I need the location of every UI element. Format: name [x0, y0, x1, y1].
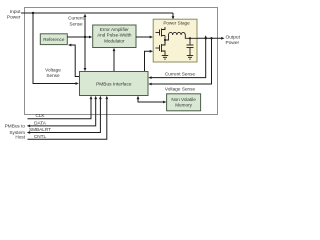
transistor Q2 (low-side MOSFET) — [156, 40, 166, 56]
svg-text:Non Volatile: Non Volatile — [171, 97, 196, 102]
svg-text:SMBALRT: SMBALRT — [29, 127, 51, 132]
svg-text:Sense: Sense — [46, 73, 60, 78]
svg-text:Error Amplifier: Error Amplifier — [100, 27, 130, 32]
svg-text:Voltage Sense: Voltage Sense — [165, 87, 196, 92]
svg-text:CNTL: CNTL — [34, 134, 47, 139]
wire SMBALRT — [29, 98, 100, 133]
svg-text:Power: Power — [226, 40, 240, 46]
wire error amp to power stage gate drive 1 — [136, 36, 151, 38]
svg-text:Modulator: Modulator — [104, 38, 125, 43]
op-amp block error amplifier / PWM U1 — [93, 25, 136, 48]
ground (under capacitor C1) — [187, 56, 193, 60]
wire input current sense vertical — [84, 16, 86, 70]
svg-text:Host: Host — [15, 135, 25, 140]
svg-text:Reference: Reference — [43, 37, 65, 42]
wire pmbus to nvm — [138, 98, 164, 103]
wire pmbus to error amplifier — [113, 50, 115, 72]
wire output voltage sense — [151, 38, 212, 84]
PMBus interface block — [80, 72, 149, 96]
wire input power rail — [21, 12, 173, 14]
svg-text:And Pulse-Width: And Pulse-Width — [97, 33, 132, 38]
ground (under FET chain) — [162, 56, 168, 60]
svg-text:Voltage: Voltage — [45, 67, 61, 72]
wire output power rail — [197, 37, 222, 39]
svg-text:Power Stage: Power Stage — [163, 21, 190, 26]
wire reference to error amplifier — [67, 36, 89, 38]
svg-text:CLK: CLK — [35, 113, 45, 118]
wire switch node — [164, 36, 166, 46]
wire CLK — [28, 98, 92, 119]
wire output current sense — [151, 38, 206, 77]
svg-text:Memory: Memory — [175, 103, 192, 108]
svg-text:Power: Power — [7, 14, 21, 20]
wire pmbus to power stage gate drive 2 — [145, 51, 151, 71]
svg-text:Current Sense: Current Sense — [165, 71, 196, 76]
wire CNTL — [28, 98, 107, 139]
power stage block — [153, 19, 197, 62]
capacitor C1 — [187, 38, 194, 55]
non volatile memory block — [167, 94, 201, 111]
svg-text:PMBus Interface: PMBus Interface — [96, 82, 132, 88]
wire pmbus to reference — [71, 45, 80, 77]
reference block — [40, 34, 67, 45]
node output voltage sense tap — [210, 37, 212, 39]
transistor Q1 (high-side MOSFET) — [156, 27, 166, 37]
wire input voltage sense (down-left) — [33, 13, 76, 84]
node current sense / reference junction — [84, 36, 86, 38]
svg-text:PMBus to: PMBus to — [5, 124, 26, 129]
node output current sense tap — [205, 37, 207, 39]
wire DATA — [29, 98, 96, 126]
svg-text:DATA: DATA — [34, 120, 47, 125]
device outline (controller IC boundary) — [25, 8, 218, 115]
svg-text:Output: Output — [226, 34, 241, 40]
inductor L1 — [169, 32, 186, 35]
wire input drop to power stage top — [172, 13, 174, 18]
svg-text:Current: Current — [68, 16, 84, 21]
svg-text:Input: Input — [10, 9, 21, 15]
svg-text:Sense: Sense — [69, 21, 83, 26]
wire inductor to output — [185, 35, 197, 38]
node input/voltage-sense tap — [32, 12, 34, 14]
